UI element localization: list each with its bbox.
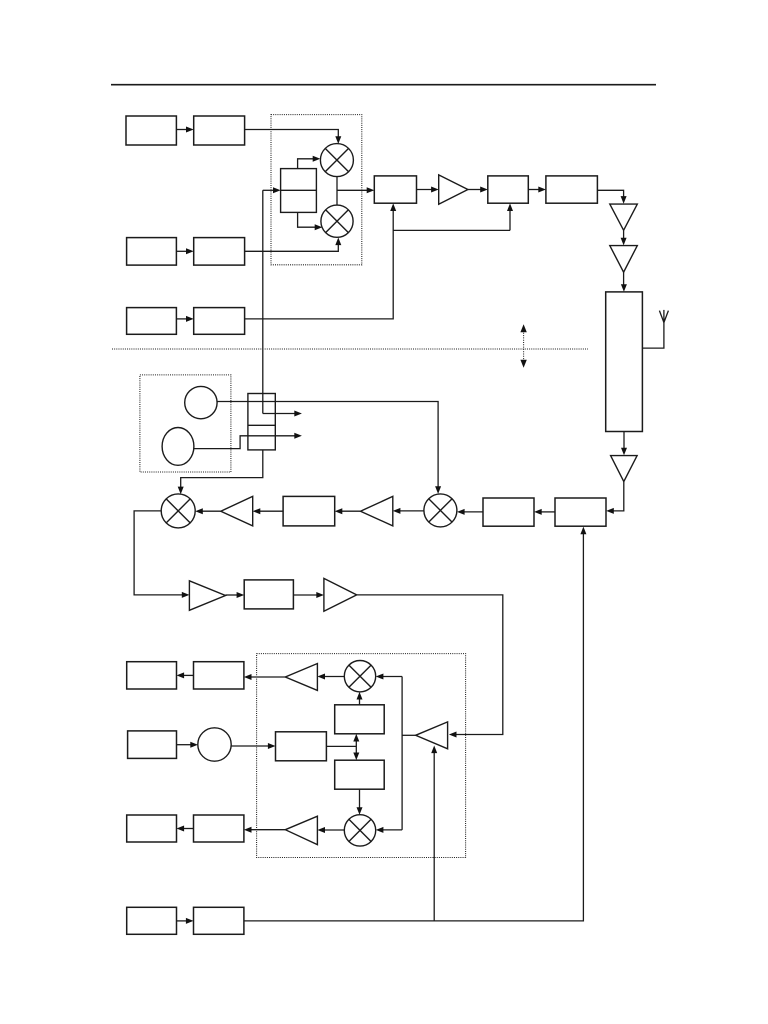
crystal oscillator circle <box>198 728 231 761</box>
block LB (90 deg phase) <box>335 760 385 789</box>
arrow T2 to T3 <box>528 187 546 193</box>
wire A6 up to T1 with branch to T2 <box>245 203 513 319</box>
arrow LB to M2 <box>357 789 363 815</box>
arrow UB to M1 <box>357 692 363 705</box>
arrow A1 to A2 <box>176 127 193 133</box>
arrow A3 to A4 <box>176 248 193 254</box>
arrow M1 to amp BT1 <box>317 674 344 680</box>
block TB (second IF filter) <box>244 580 293 609</box>
block R1 (RX LNA2) <box>483 498 534 526</box>
mixer X1 <box>320 144 353 177</box>
phase splitter block (two cells) <box>281 169 317 213</box>
block A1 (I source) <box>126 116 176 145</box>
block B4b (AGC DAC) <box>194 907 244 934</box>
arrow RB to TL1 <box>253 508 283 514</box>
arrow D2 to duplexer <box>621 272 627 292</box>
IQ modulator dotted enclosure <box>271 115 362 265</box>
wire MR1 down to amp TR1 <box>134 511 189 598</box>
block T2 (TX AGC) <box>488 176 529 203</box>
wire duplexer to LNA <box>621 432 627 456</box>
wire BT2 to block B3b <box>244 827 285 833</box>
arrow TL1 to mixer MR1 <box>195 508 221 514</box>
wire A2 to mixer X1 <box>245 130 342 144</box>
arrow A5 to A6 <box>176 316 193 322</box>
wire V1 to RX mixer MR2 <box>217 402 441 494</box>
block T1 (TX filter) <box>374 176 416 203</box>
wire splitter to mixer X1 <box>298 156 321 169</box>
block T3 (TX filter 2) <box>546 176 598 203</box>
MB output junction to UB and LB <box>326 734 359 760</box>
arrow into demod mixer M2 <box>376 827 402 833</box>
wire BT1 to block B1b <box>244 674 285 680</box>
arrow B1b to B1a <box>177 672 194 678</box>
demod amp BT1 <box>285 664 317 691</box>
LNA amp D3 <box>611 456 638 482</box>
wire V2 into switch <box>194 433 302 449</box>
block A5 (control source) <box>127 308 177 335</box>
demod mixer M1 <box>344 661 375 692</box>
wire splitter to mixer X2 <box>298 212 323 230</box>
arrow R1 to mixer MR2 <box>457 509 483 515</box>
block B4a (AGC source) <box>127 907 177 934</box>
AGC wire to R2 <box>244 527 587 921</box>
top rule <box>111 84 656 86</box>
block B3b (Q ADC) <box>194 815 244 842</box>
block B2a (reference) <box>128 731 177 759</box>
dotted separator line <box>112 348 588 350</box>
arrow R2 to R1 <box>534 509 555 515</box>
junction wire X1 to X2 <box>336 177 338 206</box>
block MB (PLL) <box>276 732 327 761</box>
arrow B4a to B4b <box>177 918 194 924</box>
arrow B2a to phase circle <box>177 742 198 748</box>
IQ demodulator dotted enclosure <box>257 654 466 858</box>
driver amp D1 <box>610 204 638 230</box>
block A4 (Q DAC) <box>194 238 245 266</box>
FT output wire and split <box>402 677 416 830</box>
feedback amp FT <box>416 722 448 749</box>
arrow TR1 to TB <box>226 592 245 598</box>
band switch block (two cells) <box>248 394 275 450</box>
LO wire switch to mixer MR1 <box>178 450 263 494</box>
LO vertical wire <box>262 190 264 413</box>
block R2 (RX front filter) <box>555 498 606 526</box>
arrow B3b to B3a <box>177 826 194 832</box>
IF amplifier TL1 <box>221 496 253 526</box>
wire T3 to driver D1 <box>597 190 626 203</box>
demod mixer M2 <box>344 815 375 846</box>
power amp D2 <box>610 246 638 273</box>
TX amplifier <box>439 175 468 204</box>
switch upper output arrow <box>263 411 302 417</box>
block A6 (ramp DAC) <box>194 308 245 335</box>
up-down mode arrow <box>520 324 526 367</box>
synthesizer dotted enclosure <box>140 375 231 472</box>
IF amplifier TL2 <box>361 496 393 526</box>
wire LNA to R2 <box>606 482 624 514</box>
arrow into demod mixer M1 <box>376 674 402 680</box>
wire TR2 to feedback amp FT <box>357 595 503 738</box>
block RB (IF filter) <box>283 496 335 526</box>
antenna <box>642 310 668 348</box>
mixer MR2 <box>424 494 457 527</box>
VCO V2 <box>162 428 194 466</box>
mixer X2 <box>321 205 353 237</box>
block UB (0 deg phase) <box>335 705 385 734</box>
IQ output arrow to T1 <box>337 187 374 193</box>
arrow TL2 to RB <box>335 508 361 514</box>
limiter amp TR2 <box>324 578 357 611</box>
arrow D1 to D2 <box>621 230 627 245</box>
block B1a (I sink) <box>127 662 177 689</box>
arrow MR2 to amp TL2 <box>393 508 424 514</box>
arrow TB to TR2 <box>293 592 324 598</box>
wire A4 to mixer X2 <box>245 238 342 252</box>
demod amp BT2 <box>285 816 317 844</box>
second IF amp TR1 <box>189 581 225 611</box>
arrow M2 to amp BT2 <box>317 827 344 833</box>
wire oscillator to MB <box>231 743 275 749</box>
block B3a (Q sink) <box>127 815 177 842</box>
arrow amp to T2 <box>468 187 488 193</box>
VCO V1 <box>185 386 217 418</box>
block A3 (Q source) <box>127 238 177 266</box>
arrow T1 to TX amp <box>417 187 439 193</box>
AGC branch to feedback amp <box>431 746 437 921</box>
LO arrow into splitter <box>263 187 281 193</box>
block B1b (I ADC) <box>194 662 244 689</box>
mixer MR1 <box>161 494 195 528</box>
block A2 (I DAC) <box>194 116 245 145</box>
duplexer <box>606 292 643 432</box>
